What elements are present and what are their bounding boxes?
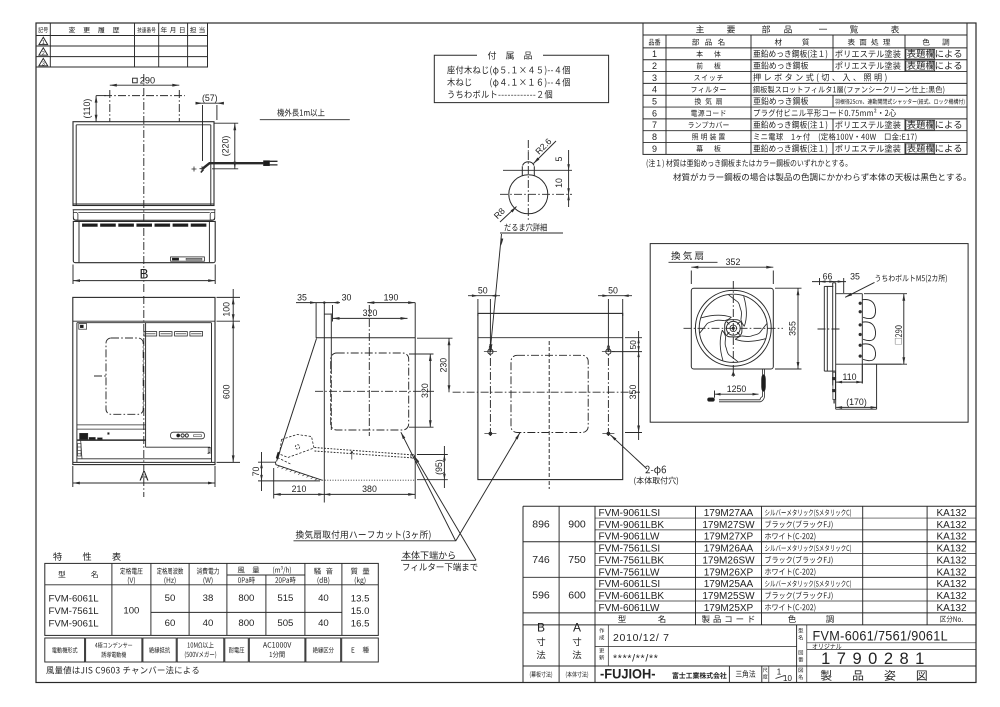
dim 50 top-right (622, 299, 624, 316)
label 換気扇取付用ハーフカット(3ヶ所) (296, 530, 431, 540)
svg-text:7: 7 (652, 120, 657, 130)
dim (95) (417, 454, 448, 456)
power cord (B view) (203, 163, 264, 168)
bottom row of title block (530, 671, 552, 678)
svg-text:70: 70 (251, 467, 261, 477)
parts table notes (647, 159, 848, 168)
svg-text:515: 515 (277, 593, 293, 604)
svg-text:35: 35 (850, 271, 860, 281)
duct opening rear (dash-dot rounded square) (511, 355, 588, 432)
centerline of front views (143, 74, 145, 294)
svg-text:(170): (170) (846, 397, 867, 407)
svg-text:38: 38 (203, 593, 214, 604)
keyhole R8 leader (500, 207, 517, 223)
rear view horizontal centerline (453, 391, 640, 393)
svg-text:FVM-9061LBK: FVM-9061LBK (599, 520, 665, 531)
svg-text:(95): (95) (434, 459, 444, 475)
svg-text:505: 505 (277, 618, 293, 629)
duct opening projection lines (109, 90, 111, 122)
side view top dims 35 30 190 (296, 302, 333, 304)
svg-text:A: A (573, 621, 581, 635)
svg-text:KA132: KA132 (936, 603, 966, 614)
fan hub (725, 320, 742, 337)
plug (264, 161, 270, 166)
hood front panel (B view) (73, 221, 215, 262)
parts list table 主要部品一覧表 (643, 23, 967, 154)
label 2-φ6 (本体取付穴) (645, 466, 666, 476)
revision triangle 3 (39, 58, 48, 65)
svg-text:179M26SW: 179M26SW (702, 555, 755, 566)
fan side dim 110 (836, 381, 862, 383)
svg-text:50: 50 (165, 593, 176, 604)
sloped front (277, 339, 317, 462)
table headers (58, 571, 97, 578)
svg-text:8: 8 (652, 132, 657, 142)
duct cover (幕板) front rect (73, 122, 214, 206)
rear view vertical dashed centerline (548, 341, 550, 478)
svg-text:1: 1 (777, 668, 782, 677)
svg-text:179M27AA: 179M27AA (704, 508, 754, 519)
svg-text:179M26AA: 179M26AA (704, 544, 754, 555)
svg-text:355: 355 (788, 321, 798, 336)
dim 50 top-left (477, 299, 479, 316)
side view body profile (315, 303, 317, 338)
fan centerlines (732, 281, 734, 378)
svg-text:600: 600 (221, 384, 231, 399)
svg-text:FVM-6061LW: FVM-6061LW (599, 603, 661, 614)
label 本体下端からフィルター下端まで (402, 551, 455, 559)
fan dim 352 (690, 271, 692, 285)
svg-text:FVM-9061LW: FVM-9061LW (599, 532, 661, 543)
fan pull cord (762, 369, 764, 396)
keyhole dims 5 and 10 (568, 150, 570, 207)
svg-text:230: 230 (439, 358, 449, 373)
date rows (599, 628, 604, 633)
shutter louvers (862, 299, 875, 318)
svg-text:B: B (139, 267, 148, 282)
fan outer ring (695, 290, 771, 366)
fan front square (691, 288, 773, 369)
inner body rect (76, 323, 78, 463)
svg-text:3: 3 (652, 73, 657, 83)
svg-text:15.0: 15.0 (351, 606, 370, 617)
svg-text:FVM-6061LBK: FVM-6061LBK (599, 591, 665, 602)
left mounting bracket detail (79, 324, 87, 330)
filter outline dash-dot (106, 338, 143, 414)
svg-text:290: 290 (140, 75, 155, 85)
filter opening side view (331, 353, 409, 430)
electrical spec boxes (45, 638, 85, 662)
svg-text:380: 380 (362, 484, 377, 494)
model name cell (798, 628, 803, 633)
svg-text:A: A (139, 469, 148, 484)
fan side centerline (818, 328, 841, 330)
bottom band (A view) (208, 447, 211, 453)
fan side lower part (836, 408, 877, 410)
svg-text:179M27SW: 179M27SW (702, 520, 755, 531)
svg-text:****/**/**: ****/**/** (613, 652, 659, 664)
svg-text:1250: 1250 (727, 384, 747, 394)
svg-text:FVM-6061L: FVM-6061L (49, 593, 100, 604)
hood body outer rect (A view) (73, 297, 215, 464)
svg-text:13.5: 13.5 (351, 593, 370, 604)
svg-text:FVM-7561LW: FVM-7561LW (599, 567, 661, 578)
leader lines for half-cut label (401, 432, 456, 541)
fan side dims 66 35 (812, 281, 846, 283)
svg-text:KA132: KA132 (936, 567, 966, 578)
lamp housing area (77, 424, 146, 426)
label 換気扇 (671, 251, 703, 260)
fan side dim square 290 (864, 293, 907, 295)
vent slots (A view) (144, 332, 157, 336)
motor bracket dashed detail (280, 435, 315, 458)
dim A (72, 466, 74, 487)
svg-text:5: 5 (554, 156, 564, 161)
switch panel (A view) (171, 432, 205, 439)
model table header row (618, 615, 626, 622)
switch panel (B view) (171, 257, 205, 261)
label だるま穴詳細 (505, 223, 547, 231)
svg-text:40: 40 (203, 618, 214, 629)
svg-text:9: 9 (652, 144, 657, 154)
svg-text:352: 352 (726, 257, 741, 267)
fan dim 1250 (715, 393, 759, 395)
label うちわボルトM5(2カ所) (876, 274, 947, 282)
svg-text:FVM-7561L: FVM-7561L (49, 606, 100, 617)
dim 600 (217, 461, 241, 463)
svg-text:FVM-7561LSI: FVM-7561LSI (599, 544, 661, 555)
svg-text:900: 900 (568, 518, 586, 530)
drawing name (799, 668, 803, 673)
svg-text:FVM-9061L: FVM-9061L (49, 619, 100, 630)
svg-text:B: B (537, 621, 545, 635)
svg-text:100: 100 (123, 606, 139, 617)
JIS note (46, 666, 198, 674)
svg-text:35: 35 (297, 292, 307, 302)
svg-text:30: 30 (342, 292, 352, 302)
accessories box 付属品 (434, 55, 608, 102)
dim (220) (214, 122, 238, 124)
svg-text:KA132: KA132 (936, 508, 966, 519)
うちわボルト side bolt (833, 372, 835, 399)
dim B (72, 265, 74, 285)
svg-text:2010/12/ 7: 2010/12/ 7 (613, 632, 670, 644)
svg-text:FVM-6061/7561/9061L: FVM-6061/7561/9061L (813, 628, 948, 644)
model table (523, 505, 976, 507)
lower mounting holes 2-φ6 (489, 432, 492, 435)
bottom front slant with ticks (276, 465, 322, 481)
title block (523, 665, 976, 667)
svg-text:1: 1 (652, 49, 657, 59)
svg-text:KA132: KA132 (936, 532, 966, 543)
svg-text:3: 3 (42, 61, 45, 67)
svg-text:800: 800 (238, 618, 254, 629)
svg-text:50: 50 (478, 285, 488, 295)
svg-text:190: 190 (384, 292, 399, 302)
svg-text:179M27XP: 179M27XP (704, 532, 754, 543)
top band line (73, 320, 215, 322)
svg-text:KA132: KA132 (936, 591, 966, 602)
svg-text:210: 210 (292, 484, 307, 494)
svg-text:KA132: KA132 (936, 579, 966, 590)
rear view outer rect (478, 313, 623, 479)
svg-text:100: 100 (221, 302, 231, 317)
dim (110) (95, 96, 97, 122)
svg-text:1: 1 (42, 40, 45, 46)
svg-text:179M25SW: 179M25SW (702, 591, 755, 602)
svg-text:16.5: 16.5 (351, 619, 370, 630)
svg-text:2: 2 (652, 61, 657, 71)
svg-text:60: 60 (165, 618, 176, 629)
right dims 50 350 (625, 337, 642, 339)
dim 100 (217, 296, 241, 298)
svg-text:800: 800 (238, 593, 254, 604)
svg-text:66: 66 (823, 271, 833, 281)
fan detail box (650, 244, 968, 423)
hood top rim (73, 209, 216, 211)
svg-text:-FUJIOH-: -FUJIOH- (600, 666, 656, 681)
svg-text:FVM-7561LBK: FVM-7561LBK (599, 555, 665, 566)
front slats (B view) (82, 224, 97, 227)
svg-text:896: 896 (532, 518, 550, 530)
svg-text:FVM-6061LSI: FVM-6061LSI (599, 579, 661, 590)
upper mounting keyholes (489, 344, 491, 437)
svg-text:50: 50 (629, 340, 638, 350)
svg-text:320: 320 (420, 383, 430, 398)
svg-text:746: 746 (532, 554, 550, 566)
svg-text:10: 10 (783, 674, 792, 683)
fan side dim (170) (836, 406, 877, 408)
svg-text:(220): (220) (220, 136, 230, 157)
dim (57) (196, 102, 224, 104)
front panel edge (A view) (145, 323, 147, 448)
left hinge details (78, 444, 81, 457)
keyhole detail だるま穴 (509, 175, 548, 214)
svg-text:4: 4 (652, 85, 657, 95)
dim 70 (258, 461, 276, 463)
svg-text:(110): (110) (82, 99, 92, 119)
svg-text:179M25XP: 179M25XP (704, 603, 754, 614)
side view dim 320 top (333, 317, 408, 319)
revision triangle 1 (39, 37, 48, 44)
svg-text:KA132: KA132 (936, 520, 966, 531)
label 機外長1m以上 (277, 109, 324, 117)
svg-text:2: 2 (42, 51, 45, 57)
svg-text:50: 50 (608, 285, 618, 295)
fan dim 355 (775, 287, 802, 289)
svg-text:40: 40 (318, 593, 329, 604)
drawing number (799, 650, 803, 655)
keyhole R2.6 leader (534, 141, 557, 164)
characteristics table (45, 563, 379, 635)
bottom dotted line (322, 479, 415, 481)
svg-text:10: 10 (554, 178, 564, 188)
slot-cut dashed leader lines (315, 448, 412, 455)
duct opening dim 290 (110, 84, 180, 86)
svg-text:1790281: 1790281 (821, 650, 931, 668)
svg-text:179M25AA: 179M25AA (704, 579, 754, 590)
svg-text:110: 110 (842, 372, 856, 382)
leader to mounting hole (490, 234, 502, 355)
side view right dims 230 and 320 (429, 354, 431, 427)
svg-text:350: 350 (628, 385, 638, 400)
svg-text:596: 596 (532, 589, 550, 601)
svg-text:5: 5 (652, 97, 657, 107)
revision history table (36, 23, 208, 67)
revision triangle 2 (39, 48, 48, 55)
svg-text:FVM-9061LSI: FVM-9061LSI (599, 508, 661, 519)
svg-text:179M26XP: 179M26XP (704, 567, 754, 578)
svg-text:320: 320 (363, 308, 378, 318)
label 特性表 (53, 552, 121, 560)
svg-text:750: 750 (568, 554, 586, 566)
svg-text:KA132: KA132 (936, 544, 966, 555)
fan blades (701, 315, 731, 318)
svg-text:KA132: KA132 (936, 555, 966, 566)
fan side view panel (823, 286, 825, 371)
fan side body (836, 293, 863, 295)
svg-text:40: 40 (318, 618, 329, 629)
svg-text:6: 6 (652, 108, 657, 118)
dims 210 380 (273, 468, 275, 499)
svg-text:(57): (57) (202, 93, 218, 103)
svg-text:600: 600 (568, 589, 586, 601)
